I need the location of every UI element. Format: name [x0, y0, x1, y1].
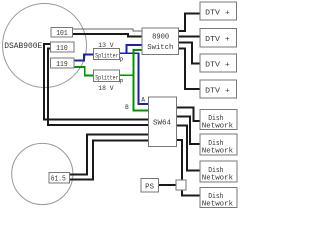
svg-text:61.5: 61.5	[51, 176, 66, 184]
svg-text:119: 119	[56, 61, 67, 69]
svg-text:SW64: SW64	[153, 119, 171, 127]
svg-text:Switch: Switch	[147, 44, 173, 52]
svg-text:110: 110	[56, 45, 67, 53]
svg-text:P: P	[120, 57, 124, 64]
svg-text:DTV +: DTV +	[205, 61, 230, 69]
svg-text:Splitter: Splitter	[95, 53, 119, 60]
svg-text:Network: Network	[202, 174, 233, 182]
svg-text:B: B	[125, 104, 129, 111]
svg-text:PS: PS	[145, 183, 154, 191]
svg-text:Network: Network	[202, 147, 233, 155]
svg-text:DSAB900E: DSAB900E	[4, 42, 42, 51]
svg-text:P: P	[120, 79, 124, 86]
svg-text:101: 101	[56, 30, 67, 38]
svg-text:Network: Network	[202, 123, 233, 131]
svg-text:DTV +: DTV +	[205, 9, 230, 17]
svg-text:18 V: 18 V	[98, 85, 114, 92]
svg-text:Splitter: Splitter	[95, 74, 119, 81]
svg-text:A: A	[141, 96, 145, 103]
svg-text:8900: 8900	[152, 34, 169, 42]
svg-text:13 V: 13 V	[98, 42, 114, 49]
svg-text:DTV +: DTV +	[205, 36, 230, 44]
svg-text:Network: Network	[202, 201, 233, 209]
svg-text:DTV +: DTV +	[205, 87, 230, 95]
